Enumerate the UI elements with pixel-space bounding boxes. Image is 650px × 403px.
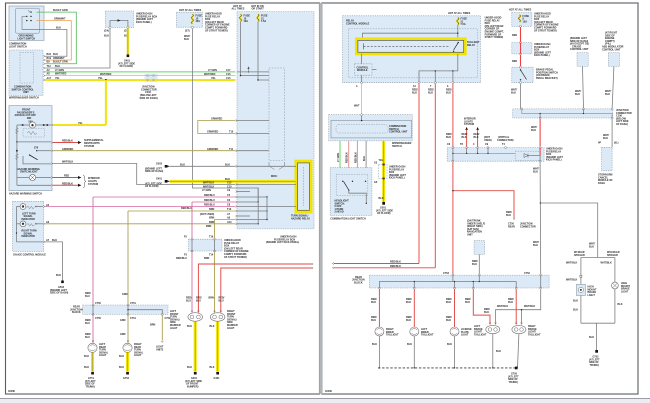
svg-text:BLK: BLK [119,355,124,358]
wire GRN vertical to rear junction [122,211,128,305]
svg-text:SWITCH: SWITCH [392,145,402,148]
svg-text:T16: T16 [209,236,214,239]
svg-text:BLK: BLK [428,91,433,94]
svg-text:RED/BLK: RED/BLK [390,261,401,264]
svg-text:BLK: BLK [446,91,451,94]
svg-text:C17: C17 [226,69,231,72]
hazard warning light [17,168,51,181]
svg-text:BLK: BLK [363,156,366,161]
wire RED/BLK output 1 [412,84,419,264]
right rear ground wire highlighted [119,352,128,371]
svg-text:2:HEAD: 2:HEAD [335,211,344,214]
right brake light/taillight [512,323,541,337]
svg-text:15A: 15A [523,20,528,23]
wire BLK right inner taillight to ground bus [372,336,380,369]
svg-text:IND: IND [27,117,31,120]
wire RED/BLK stub to rear junction connector [452,190,536,228]
svg-text:C752: C752 [524,272,530,275]
svg-text:UNITS: UNITS [156,348,164,351]
svg-text:BLK: BLK [56,27,61,30]
svg-text:BLK/LT GRN: BLK/LT GRN [53,9,68,12]
svg-text:STRUT TOWER): STRUT TOWER) [485,36,504,39]
svg-text:SWITCH/LIGHT: SWITCH/LIGHT [20,171,38,174]
svg-text:BLK: BLK [573,300,578,303]
svg-text:BLK: BLK [407,343,412,346]
svg-text:BRN: BRN [150,324,156,327]
high mount brake light (spoiler) [612,282,631,293]
svg-text:OF FLOOR): OF FLOOR) [377,212,391,215]
wire BLK left inner taillight to ground bus [407,336,415,369]
wire YEL hazard to junction (highlighted) [51,122,106,126]
svg-text:BLK: BLK [187,325,192,328]
wire RED/BLK to SRS [16,139,104,148]
rear junction block (left page) [70,302,171,320]
svg-text:WHT/BLK: WHT/BLK [524,305,535,308]
right turn signal indicator lamp [17,221,50,238]
svg-text:(G4): (G4) [104,30,109,33]
svg-text:RED/BLU: RED/BLU [204,199,215,202]
svg-text:USED): USED) [484,139,492,142]
svg-text:TAILLIGHT: TAILLIGHT [528,333,541,336]
wire RED/BLU feed from right page to right front lamp [219,267,314,313]
svg-text:RED/BLU: RED/BLU [204,194,215,197]
wire BRN to right front [209,217,268,221]
svg-text:OF STRUT TOWER): OF STRUT TOWER) [224,256,247,259]
svg-text:KICK PANEL): KICK PANEL) [534,54,550,57]
under-hood fuse relay box (right page) [512,13,559,33]
svg-text:40438: 40438 [8,390,15,393]
svg-text:BLK: BLK [446,319,451,322]
svg-text:CONNECTOR: CONNECTOR [520,225,536,228]
svg-text:HOT AT ALL TIMES: HOT AT ALL TIMES [448,12,471,15]
svg-text:BLK: BLK [472,263,477,266]
svg-text:YEL: YEL [78,122,83,125]
wire BRN down to under-hood box [206,220,215,239]
pin A17 / wire YEL highlighted [43,77,235,81]
svg-text:BLK: BLK [53,53,58,56]
svg-text:SIDE OF DASH): SIDE OF DASH) [140,97,158,100]
svg-text:RED: RED [64,175,69,178]
svg-text:BLK: BLK [187,366,192,369]
svg-text:BLK: BLK [575,93,580,96]
svg-text:BLK: BLK [210,325,215,328]
svg-text:INDICATOR: INDICATOR [22,235,36,238]
left brake light/taillight [474,323,500,337]
svg-text:LT GRN: LT GRN [202,189,211,192]
ABS modulator control unit [602,32,624,67]
svg-text:BLK: BLK [406,319,411,322]
svg-text:GAUGE CONTROL MODULE: GAUGE CONTROL MODULE [13,253,46,256]
ground G401 mid / wire BLK highlighted [145,178,296,189]
svg-text:RED/BLK: RED/BLK [390,265,401,268]
wire BLK high mount to ground [573,289,623,350]
junction node brake wire [540,202,541,203]
svg-text:C12: C12 [227,182,232,185]
svg-text:SIDE OF DASH): SIDE OF DASH) [50,292,68,295]
svg-text:BLK: BLK [406,301,411,304]
svg-text:WIPER/WASHER SWITCH: WIPER/WASHER SWITCH [9,96,39,99]
wire RED/BLK output 3 [446,84,453,275]
under-dash fuse/relay box (right page small) [512,42,552,58]
svg-text:LT GRN: LT GRN [337,153,340,162]
svg-text:BLK: BLK [180,164,185,167]
pin label for WHT/BLK fuse wire [203,185,258,202]
svg-text:ORN/WHT: ORN/WHT [53,57,65,60]
pin B19 [43,57,65,61]
svg-text:BRN: BRN [209,217,215,220]
svg-text:WHT/RED: WHT/RED [55,73,67,76]
svg-text:HAZARD WARNING SWITCH: HAZARD WARNING SWITCH [9,192,42,195]
svg-text:A10: A10 [227,221,232,224]
wire WHT/BLK (cruise to C108) [575,66,584,109]
svg-text:BLK: BLK [573,309,578,312]
wire BRN to right rear [128,197,268,220]
wire GRN/RED loop upper [198,118,269,135]
svg-text:GRN/RED: GRN/RED [211,118,222,121]
svg-text:YEL: YEL [379,159,384,162]
svg-text:CONTROL UNIT: CONTROL UNIT [570,48,589,51]
wire RED/BLK horizontal to left page (lower) [332,265,435,269]
high mount brake light (standard) [577,284,597,297]
svg-text:40A: 40A [196,20,201,23]
pin B10 [43,53,58,57]
stub LT GRN not used [202,189,250,193]
svg-text:YEL: YEL [211,77,216,80]
svg-text:G401: G401 [214,377,221,380]
brake pedal position switch SW3 [512,66,558,84]
svg-text:C15: C15 [226,77,231,80]
left front turn signal/side marker light [170,310,203,330]
svg-text:WHT/RED: WHT/RED [100,73,112,76]
svg-text:SYSTEM: SYSTEM [84,145,94,148]
wire RED/BLK to right brake/taillight [508,289,516,324]
svg-text:BLK: BLK [371,301,376,304]
air bag cut-off indicator lamp [17,122,51,128]
svg-text:YEL: YEL [98,77,103,80]
junction connector C108 [513,108,632,126]
fuse (relay module) [457,18,468,27]
fuse 31 [257,14,268,23]
svg-text:BLU: BLU [196,299,201,302]
under-hood fuse/relay box (left page top) [176,9,230,41]
hazard warning switch assembly SW2 [9,106,52,191]
wire RED/BLK to interior lights [17,175,100,188]
hazard switch blade [15,154,37,160]
svg-text:WHT/RED: WHT/RED [204,73,216,76]
license plate light [450,327,472,337]
svg-text:BLK: BLK [603,137,608,140]
combination switch control unit (right page) [329,114,413,148]
fuse 15 [240,14,251,23]
ground G503 (gauge) [50,281,68,295]
svg-text:OF STRUT TOWER): OF STRUT TOWER) [534,29,557,32]
svg-text:BLU: BLU [85,295,90,298]
svg-text:OR START: OR START [252,8,265,11]
wire from fuse 15 to WHT/RED row [240,22,269,77]
wire WHT/BLK from hazard [23,156,73,164]
svg-text:BLK: BLK [506,214,511,217]
svg-text:RED/BLK: RED/BLK [354,152,357,163]
pin A8 / wire WHT/RED [43,73,235,77]
page frame right [322,3,638,394]
wire LT GRN (comb switch to light switch) [337,141,340,181]
under-dash fuse/relay box (horizontal, right page) [447,136,563,162]
wire BLK brake/taillights to ground [492,334,519,369]
svg-text:BLK: BLK [52,239,57,242]
svg-text:OF DASH): OF DASH) [616,123,628,126]
ground G752 [123,372,130,380]
svg-text:B10: B10 [47,53,52,56]
svg-text:BLK: BLK [184,38,189,41]
svg-text:RED/BLU: RED/BLU [176,257,187,260]
svg-text:WHT/BLK: WHT/BLK [566,279,577,282]
cruise control unit [570,37,589,66]
svg-text:KICK PANEL): KICK PANEL) [136,21,152,24]
pin T12 / wire BLK to under-dash box [43,28,110,69]
right inner taillight [375,327,399,337]
svg-text:UNIT: UNIT [467,234,473,237]
svg-text:PEDAL BRACKET): PEDAL BRACKET) [536,77,558,80]
wire WHT/BLK (C108 to 4P connector) [603,119,612,147]
svg-text:TAILLIGHT: TAILLIGHT [474,333,487,336]
wire BRN to right front lamp [204,251,215,313]
svg-text:BRN: BRN [209,208,215,211]
svg-text:BRN: BRN [204,257,210,260]
wire WHT/BLK from under-hood fuse down to fuse box [192,29,235,188]
svg-text:BLK: BLK [589,245,594,248]
svg-text:LIGHT: LIGHT [170,327,178,330]
svg-text:BLK: BLK [104,35,109,38]
svg-text:10A: 10A [244,20,249,23]
svg-text:RED/BLK: RED/BLK [346,152,349,163]
ground G752 (high mount) [589,350,600,367]
wire RED/BLK (comb switch to light switch) [354,141,357,181]
svg-text:SYSTEM: SYSTEM [464,123,474,126]
svg-text:BLK: BLK [533,170,538,173]
svg-text:276: 276 [34,147,39,150]
ground G751 [85,372,96,389]
spoiler branch split [566,243,620,285]
svg-text:LIGHT: LIGHT [99,354,107,357]
svg-text:(I/L): (I/L) [614,142,619,145]
svg-text:BLK: BLK [371,319,376,322]
svg-text:KICK PANEL): KICK PANEL) [546,159,562,162]
svg-text:BLU: BLU [85,322,90,325]
HOT AT ALL TIMES (brake fuse) [509,9,532,12]
combination light switch (right page) [330,168,372,221]
svg-text:BLK: BLK [447,343,452,346]
wire BLK license light to ground bus [447,336,455,369]
svg-text:BLK: BLK [84,366,89,369]
wire WHT/BLK from hazard switch [53,164,296,186]
svg-text:BLK: BLK [446,136,451,139]
svg-text:GRN: GRN [120,319,126,322]
stub not used [200,213,250,217]
svg-text:G752: G752 [123,377,130,380]
combination light switch SW1 [9,6,44,48]
svg-text:BRN: BRN [209,297,215,300]
svg-text:OF FLOOR): OF FLOOR) [145,185,159,188]
under-dash fuse/relay box (top small) [104,11,158,38]
control module sub-box [355,54,377,83]
svg-text:MODULE: MODULE [357,69,368,72]
svg-text:RED/BLU: RED/BLU [181,207,192,210]
svg-text:RED/BLU: RED/BLU [204,204,215,207]
svg-text:T11: T11 [229,148,234,151]
svg-text:CONTROL UNIT: CONTROL UNIT [389,131,408,134]
svg-text:WHT/BLK: WHT/BLK [566,262,577,265]
svg-text:G401: G401 [156,178,163,181]
ground G301 [185,372,202,389]
svg-text:T14: T14 [209,254,214,257]
svg-text:C751: C751 [130,302,136,305]
gauge module ground wire BLK [16,207,63,281]
ground bus BLK (dashed) [378,367,516,369]
svg-text:BLU: BLU [186,299,191,302]
svg-text:HAZARD RELAY: HAZARD RELAY [291,217,310,220]
wire ORN/WHT from light switch [37,18,72,60]
hazard internal resistor box [15,125,44,185]
svg-text:BLK: BLK [412,91,417,94]
navigation unit [467,220,485,276]
svg-text:GRN: GRN [120,333,126,336]
svg-text:BLK: BLK [379,197,384,200]
ground G503 mid / wire BLK [145,163,296,174]
wire RED/BLU vertical to rear junction [85,197,93,305]
wire BLK from light switch [22,27,67,57]
svg-text:HOT AT ALL TIMES: HOT AT ALL TIMES [179,9,202,12]
svg-text:BLK: BLK [372,343,377,346]
wire RED/BLK to left brake/taillight [465,289,490,324]
svg-text:40439: 40439 [325,390,332,393]
relay output wires to module pins [419,54,458,83]
MICU sub-box [269,68,284,178]
svg-text:T10: T10 [229,131,234,134]
4P connector (middle of dash) [598,142,619,185]
wire RED (fuse to under-dash) [512,27,521,42]
under-hood fuse relay box (left page lower) [184,236,249,259]
svg-text:BLK: BLK [496,350,501,353]
combination switch control unit U2 [9,50,43,99]
svg-text:BLK: BLK [462,136,467,139]
svg-text:RED: RED [512,34,517,37]
svg-text:ORN/WHT: ORN/WHT [54,18,66,21]
wire RED (under-dash to brake switch) [512,55,521,67]
svg-text:SIDE OF DASH): SIDE OF DASH) [145,170,163,173]
svg-text:BUMPER): BUMPER) [187,385,199,388]
wire BLK (comb switch to light switch) [363,141,366,181]
junction node on YEL wire [105,79,107,81]
right front ground wire highlighted [210,321,218,371]
wire RED/BLU from gauge left turn [45,204,296,208]
svg-text:ALL TIMES: ALL TIMES [232,8,245,11]
svg-text:BLK: BLK [605,93,610,96]
svg-text:BLOCK: BLOCK [72,311,81,314]
pin A2 / wire LT GRN to fuse box [43,69,235,73]
svg-text:LIGHT: LIGHT [588,294,596,297]
svg-text:CONNECTOR): CONNECTOR) [497,139,514,142]
svg-text:BLK: BLK [225,164,230,167]
ground G501 [376,202,393,215]
svg-text:KICK PANEL): KICK PANEL) [389,177,405,180]
svg-text:C16: C16 [226,73,231,76]
pin B9 [43,61,67,65]
wire BRN from gauge right turn [45,188,259,225]
svg-text:TAILLIGHT: TAILLIGHT [421,334,434,337]
left rear ground wire highlighted [84,352,93,371]
svg-text:LT GRN: LT GRN [208,69,217,72]
svg-text:BLU: BLU [85,336,90,339]
wire WHT to combination switch control unit [354,84,362,115]
svg-text:C750: C750 [95,302,101,305]
wire RED/BLK (C108 to under-dash box) [531,119,540,146]
svg-text:BLK: BLK [484,311,489,314]
wire BLK/LT GRN from light switch [37,9,77,64]
left rear turn signal light [85,314,109,357]
svg-text:TAILLIGHT: TAILLIGHT [386,334,399,337]
interior lights system arrows [446,118,480,148]
wire LT GRN inside box to MICU [237,71,269,73]
svg-text:TRUNK): TRUNK) [86,385,96,388]
right front turn signal/side marker light [210,310,238,330]
svg-text:LIGHT: LIGHT [227,327,235,330]
wire fuse to taillight relay [362,25,458,39]
svg-text:WHT/BLK: WHT/BLK [497,305,508,308]
svg-text:RED/BLK: RED/BLK [62,140,73,143]
wire RED/BLK to right inner taillight [371,289,379,327]
svg-text:LIGHT: LIGHT [134,354,142,357]
wire WHT/BLK (brake switch to C108) [511,84,521,109]
svg-text:BLK: BLK [589,336,594,339]
svg-text:INDICATOR: INDICATOR [22,218,36,221]
svg-text:WHT: WHT [354,105,360,108]
under-dash fuse/relay box (left page main) [232,5,315,244]
svg-text:GRN/RED: GRN/RED [207,131,218,134]
left inner taillight [410,327,434,337]
svg-text:CONTROL UNIT: CONTROL UNIT [602,48,621,51]
svg-text:CONTROL MODULE: CONTROL MODULE [346,22,370,25]
taillight relay K2 (highlighted) [356,39,480,54]
svg-text:(S7): (S7) [185,30,190,33]
svg-text:BLK: BLK [56,274,61,277]
svg-text:REAR: REAR [508,225,515,228]
svg-text:WHT/BLK: WHT/BLK [62,161,73,164]
svg-text:T12: T12 [47,65,52,68]
wire RED/BLU feed from right page to left front lamp [196,263,313,313]
page frame left [6,3,320,394]
wire WHT/BLK branch to high mount lights [540,203,597,258]
svg-text:BLK: BLK [508,301,513,304]
svg-text:LIGHT SWITCH: LIGHT SWITCH [9,45,27,48]
relay control module U4 [343,16,481,83]
svg-text:RELAY: RELAY [467,44,475,47]
hazard switch contacts / wire GRN/RED [16,147,73,152]
rear junction block (right page) [352,272,549,289]
svg-text:RED/BLK: RED/BLK [62,183,73,186]
ground G401 front [214,372,221,380]
svg-text:WHT/BLK: WHT/BLK [601,262,612,265]
svg-text:B19: B19 [47,57,52,60]
relay module bottom pins [356,82,454,88]
wire BLK highlighted to ground G401 [127,28,129,54]
svg-text:BLK: BLK [446,301,451,304]
svg-text:GRN/RED: GRN/RED [62,148,73,151]
svg-text:LIGHT SWITCH: LIGHT SWITCH [18,37,36,40]
svg-text:BLK: BLK [225,178,230,181]
wire RED/BLU to left front [192,199,259,203]
under-dash fuse/relay box (around YEL) [374,162,406,185]
svg-text:BLK: BLK [84,355,89,358]
